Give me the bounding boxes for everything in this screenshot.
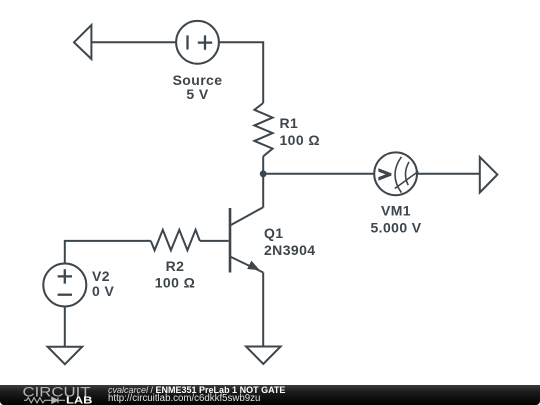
Q1 emitter lead xyxy=(230,257,263,273)
svg-text:100 Ω: 100 Ω xyxy=(155,275,195,291)
svg-text:2N3904: 2N3904 xyxy=(264,242,315,258)
VM1 needle xyxy=(395,171,419,188)
transistor Q1 base bar xyxy=(229,208,232,273)
VM1 meter face arc 2 xyxy=(405,162,409,185)
voltmeter VM1 circle xyxy=(374,152,417,195)
wire node to VM1 xyxy=(263,173,374,175)
wire R1 bottom to node xyxy=(262,156,264,174)
port P1 (left output arrow) xyxy=(74,25,91,59)
wire P1 to V1 xyxy=(91,41,176,43)
CircuitLab logo xyxy=(0,385,110,405)
wire R2 to V2 corner xyxy=(65,241,151,264)
V2 plus terminal xyxy=(58,269,72,283)
voltage source V2 circle xyxy=(43,264,86,307)
VM1 ">" mark xyxy=(378,168,391,180)
svg-text:R2: R2 xyxy=(166,258,185,274)
logo resistor-diode squiggle xyxy=(24,397,65,403)
svg-text:V2: V2 xyxy=(92,268,110,284)
svg-text:R1: R1 xyxy=(280,115,299,131)
port P2 (right output arrow) xyxy=(480,157,498,193)
footer url text xyxy=(108,393,260,404)
V2 minus terminal xyxy=(58,294,72,296)
svg-text:VM1: VM1 xyxy=(381,202,411,218)
node junction dot xyxy=(260,170,267,177)
svg-text:100 Ω: 100 Ω xyxy=(280,132,320,148)
Q1 emitter arrowhead xyxy=(247,261,260,271)
wire VM1 to port P2 xyxy=(417,173,480,175)
wire Q1 base to R2 xyxy=(200,240,229,242)
svg-text:Q1: Q1 xyxy=(264,225,283,241)
svg-text:0 V: 0 V xyxy=(92,283,114,299)
V1 plus terminal xyxy=(198,35,212,49)
resistor R2 xyxy=(151,230,200,251)
Q1 collector lead xyxy=(230,208,263,226)
svg-text:LAB: LAB xyxy=(66,394,93,405)
wire node down to Q1 collector xyxy=(262,174,264,208)
voltage source V1 "Source" circle xyxy=(176,21,219,64)
footer bar xyxy=(0,385,540,405)
wire V1 to corner to R1 top xyxy=(219,42,263,103)
V1 minus terminal (rotated bar) xyxy=(186,35,188,49)
wire Q1 emitter down to ground xyxy=(262,273,264,347)
ground GND1 (under V2) xyxy=(48,347,83,365)
ground GND2 (under Q1) xyxy=(246,347,281,365)
footer credit text xyxy=(108,385,285,395)
svg-text:5.000 V: 5.000 V xyxy=(370,220,421,236)
VM1 meter face arc 1 xyxy=(395,157,401,193)
resistor R1 xyxy=(254,103,272,156)
svg-text:5 V: 5 V xyxy=(186,86,208,102)
wire V2 to ground xyxy=(64,307,66,347)
